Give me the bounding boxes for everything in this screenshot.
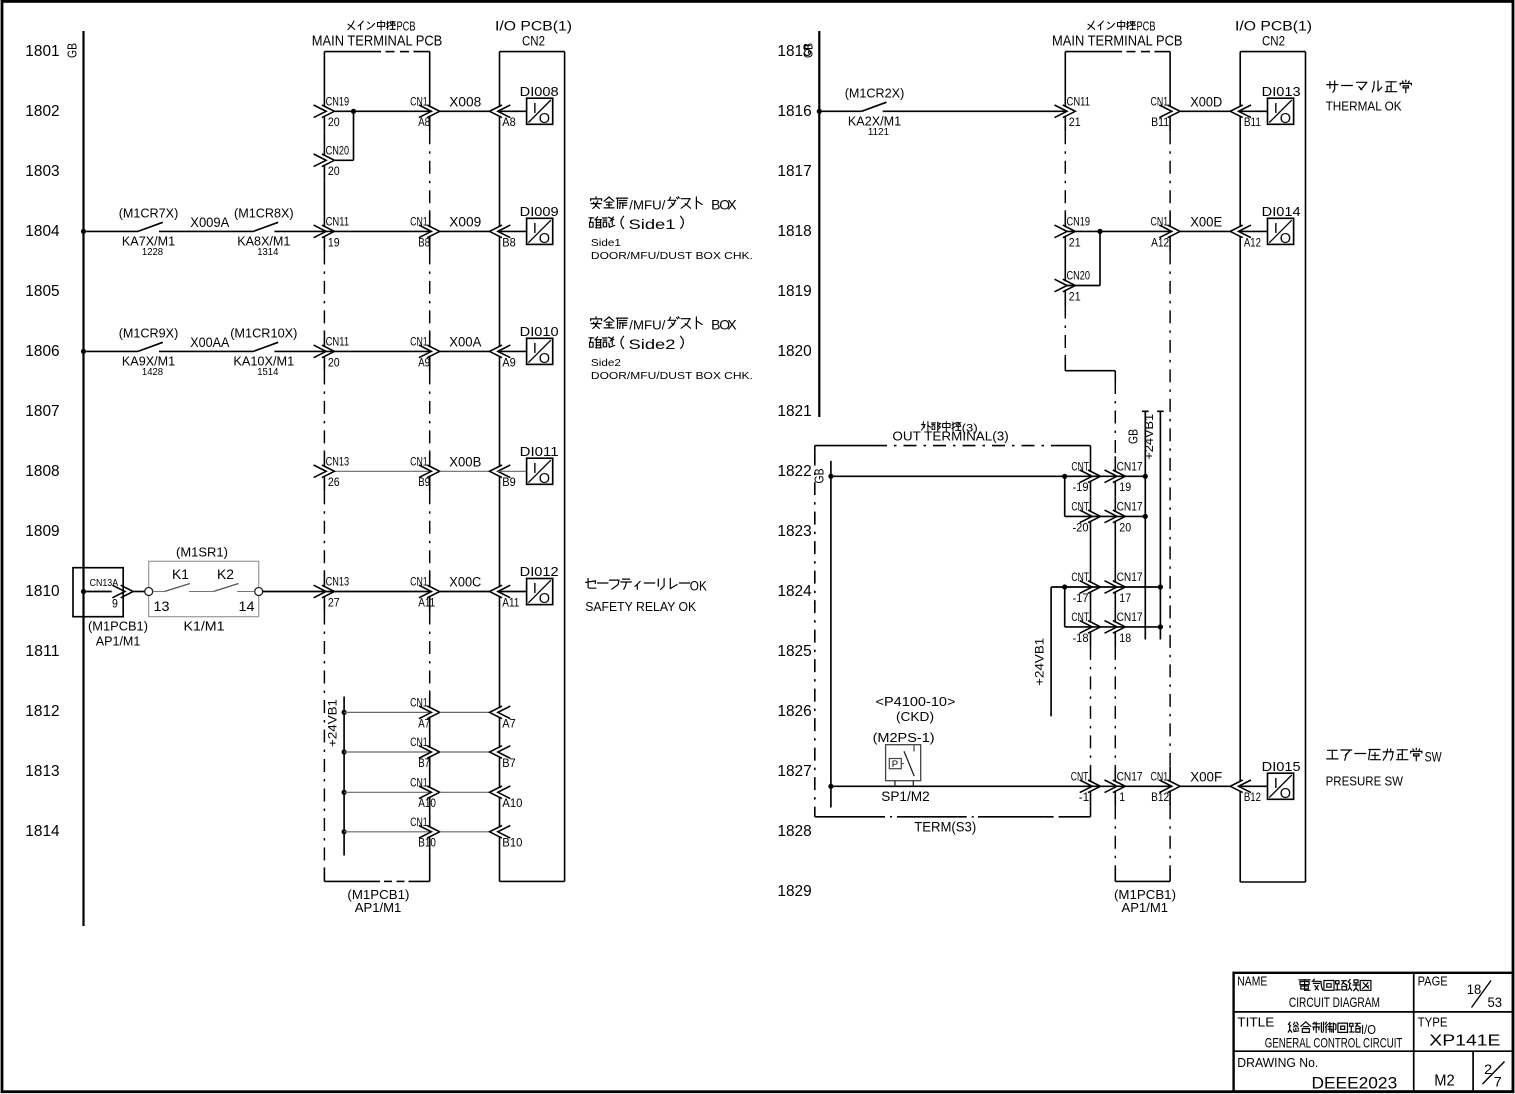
junction node GB riser row 1822: [1143, 474, 1148, 479]
wire to DI011: [498, 470, 527, 472]
connector pin CN20-20 (left main box): [314, 154, 327, 167]
svg-text:+24VB1: +24VB1: [328, 699, 340, 747]
safety relay terminal circle 14: [255, 588, 263, 596]
svg-text:DI013: DI013: [1262, 84, 1301, 99]
safety relay contact K1: [153, 591, 165, 593]
svg-text:AP1/M1: AP1/M1: [1122, 900, 1169, 915]
wire CN1-A10 to CN2-A10: [440, 791, 490, 793]
connector pin A10 (I/O PCB CN2): [490, 786, 503, 799]
svg-text:O: O: [539, 351, 550, 367]
svg-text:CNT: CNT: [1071, 610, 1089, 624]
svg-text:+24VB1: +24VB1: [1035, 638, 1047, 686]
connector pin CN11-20 (left main box): [314, 345, 327, 358]
svg-text:DEEE2023: DEEE2023: [1312, 1075, 1398, 1093]
safety relay unit M1SR1 K1/M1 - box: [149, 561, 259, 616]
svg-text:7: 7: [1494, 1075, 1502, 1090]
svg-text:20: 20: [1119, 520, 1131, 534]
svg-text:CN1: CN1: [410, 575, 428, 589]
svg-text:Side1: Side1: [629, 217, 676, 232]
wire to DI010: [498, 350, 527, 352]
bus +24VB1 (left): [343, 697, 345, 856]
svg-text:1811: 1811: [25, 643, 59, 660]
wire net X009: [440, 230, 490, 232]
connector pin CN1-A8 (left main box right edge): [419, 105, 432, 118]
svg-text:1826: 1826: [777, 703, 811, 720]
connector pin CN1-B11 (right main box right edge): [1159, 105, 1172, 118]
svg-text:B7: B7: [418, 756, 430, 770]
svg-text:O: O: [1280, 786, 1291, 802]
box OUT TERMINAL(3) - top edge: [815, 445, 874, 447]
connector pin B8 (I/O PCB CN2): [490, 225, 503, 238]
svg-text:1428: 1428: [142, 367, 164, 378]
svg-text:1822: 1822: [777, 463, 811, 480]
box I/O PCB(1) CN2 (right) - outline: [1240, 51, 1305, 53]
svg-text:A12: A12: [1244, 235, 1261, 249]
svg-text:CN20: CN20: [1067, 269, 1091, 283]
svg-text:O: O: [539, 231, 550, 247]
svg-text:SW: SW: [1425, 749, 1442, 764]
svg-text:DI012: DI012: [520, 564, 559, 579]
svg-text:(M1SR1): (M1SR1): [176, 544, 228, 559]
svg-text:K1: K1: [172, 567, 189, 582]
annotation 安全扉/MFU/ダスト BOX 確認(Side1): [591, 197, 628, 209]
bus GB (right): [818, 31, 820, 417]
junction node GB OUT row 1827: [828, 784, 833, 789]
svg-text:18: 18: [1467, 981, 1482, 997]
wire CN1-B10 to CN2-B10: [440, 831, 490, 833]
svg-text:A11: A11: [418, 595, 435, 609]
svg-text:OK: OK: [690, 579, 707, 594]
svg-text:CN11: CN11: [326, 215, 350, 229]
svg-text:1828: 1828: [777, 823, 811, 840]
svg-text:O: O: [539, 111, 550, 127]
svg-text:1821: 1821: [777, 403, 811, 420]
wire +24VB1 to CN1-A7: [344, 711, 431, 713]
box MAIN TERMINAL PCB (right) - left edge upper with step: [1064, 52, 1066, 107]
wire GB to pressure switch: [831, 785, 1172, 787]
svg-text:K1/M1: K1/M1: [184, 619, 225, 634]
svg-text:CNT: CNT: [1071, 460, 1089, 474]
svg-text:O: O: [1280, 111, 1291, 127]
svg-text:18: 18: [1119, 631, 1131, 645]
relay contact KA9X/M1 (M1CR9X): [138, 342, 163, 351]
connector pin CN20-21 (right main box): [1055, 279, 1068, 292]
svg-text:B12: B12: [1151, 790, 1169, 804]
box OUT TERMINAL(3) - right edge: [1090, 446, 1092, 472]
wire CNT-18 row: [1065, 626, 1161, 628]
connector pin B10 (I/O PCB CN2): [490, 826, 503, 839]
svg-text:1818: 1818: [777, 223, 811, 240]
svg-text:X00E: X00E: [1190, 215, 1222, 230]
svg-text:X: X: [727, 197, 736, 213]
svg-text:X00C: X00C: [449, 575, 481, 590]
svg-text:TYPE: TYPE: [1418, 1015, 1448, 1029]
svg-text:CN1: CN1: [410, 95, 428, 109]
connector pin CN1-B7 (left main box right edge): [419, 746, 432, 759]
svg-text:B9: B9: [418, 475, 430, 489]
connector pin CN17-1 (right main box): [1105, 780, 1118, 793]
svg-text:MAIN TERMINAL PCB: MAIN TERMINAL PCB: [1052, 33, 1183, 49]
svg-text:1802: 1802: [25, 103, 59, 120]
svg-text:1823: 1823: [777, 523, 811, 540]
junction node row 1818: [1097, 229, 1102, 234]
svg-text:B7: B7: [502, 756, 516, 770]
connector pin CN19-20 (left main box): [314, 105, 327, 118]
box I/O PCB(1) CN2 (left) - outline: [500, 51, 565, 53]
junction node +24VB1 riser row CN17-18: [1158, 624, 1163, 629]
svg-text:CN1: CN1: [410, 815, 428, 829]
svg-text:1228: 1228: [142, 247, 164, 258]
wire contact KA8X to CN11: [274, 230, 431, 232]
svg-text:(M1CR10X): (M1CR10X): [230, 326, 297, 341]
box MAIN TERMINAL PCB (left) - bottom edge with break: [324, 880, 380, 882]
connector pin CN1-A9 (left main box right edge): [419, 345, 432, 358]
title block column divider lower 2: [1472, 1051, 1474, 1091]
svg-text:PCB: PCB: [1137, 20, 1156, 34]
svg-text:B11: B11: [1151, 115, 1169, 129]
junction node GB bus row 1806: [81, 349, 86, 354]
connector CN13A pin 9 (M1PCB1 AP1/M1): [73, 568, 123, 617]
wire net X00AA: [159, 350, 253, 352]
svg-text:DRAWING No.: DRAWING No.: [1237, 1056, 1318, 1070]
wire +24VB1 to CN1-B7: [344, 751, 431, 753]
title block column divider lower 1: [1413, 1051, 1415, 1091]
I/O module DI009: [527, 218, 553, 244]
svg-text:14: 14: [239, 599, 256, 614]
svg-text:CNT: CNT: [1071, 500, 1089, 514]
junction node stub origin row 1822: [1062, 474, 1067, 479]
svg-text:I: I: [533, 460, 537, 477]
wire net X00A: [440, 350, 490, 352]
svg-text:1808: 1808: [25, 463, 59, 480]
svg-text:53: 53: [1488, 994, 1503, 1010]
I/O module DI013: [1268, 98, 1294, 124]
connector pin CNT-18 (OUT TERMINAL): [1080, 621, 1093, 634]
svg-text:1801: 1801: [25, 43, 59, 60]
svg-text:A12: A12: [1151, 235, 1169, 249]
svg-text:DI014: DI014: [1262, 204, 1301, 219]
svg-text:X009A: X009A: [190, 215, 229, 230]
svg-text:CNT: CNT: [1071, 770, 1089, 784]
connector pin B7 (I/O PCB CN2): [490, 746, 503, 759]
wire to DI009: [498, 230, 527, 232]
svg-text:Side2: Side2: [591, 357, 621, 369]
I/O module DI012: [527, 579, 553, 605]
svg-text:20: 20: [328, 164, 340, 178]
connector pin CNT-17 (OUT TERMINAL): [1080, 581, 1093, 594]
svg-text:17: 17: [1119, 591, 1131, 605]
svg-text:1819: 1819: [777, 283, 811, 300]
svg-text:1809: 1809: [25, 523, 59, 540]
box OUT TERMINAL(3) - left edge: [814, 446, 816, 453]
wire GB bus to contact KA9X: [84, 350, 139, 352]
svg-text:X009: X009: [449, 215, 481, 230]
connector pin CN17-17 (right main box): [1105, 581, 1118, 594]
box MAIN TERMINAL PCB (right) - top edge with break: [1065, 51, 1122, 53]
svg-text:CN1: CN1: [1151, 770, 1169, 784]
wire contact KA2X to CN11-21: [883, 110, 1067, 112]
svg-text:MAIN TERMINAL PCB: MAIN TERMINAL PCB: [312, 33, 443, 49]
wire net X009A: [159, 230, 253, 232]
svg-text:B8: B8: [502, 235, 516, 249]
connector pin A12 (right I/O PCB CN2): [1230, 225, 1243, 238]
svg-text:I/O PCB(1): I/O PCB(1): [1235, 19, 1312, 34]
annotation エアー圧力正常SW / PRESURE SW: [1327, 748, 1422, 760]
svg-text:CN1: CN1: [410, 735, 428, 749]
svg-text:CN1: CN1: [1151, 215, 1169, 229]
connector pin CN17-19 (right main box): [1105, 470, 1118, 483]
bus GB riser (right middle): [1142, 410, 1149, 412]
svg-text:DI010: DI010: [520, 324, 559, 339]
svg-text:CN20: CN20: [326, 144, 350, 158]
wire GB bus to contact KA2X: [819, 110, 861, 112]
svg-text:CIRCUIT DIAGRAM: CIRCUIT DIAGRAM: [1289, 994, 1380, 1010]
svg-text:20: 20: [328, 115, 340, 129]
svg-text:CN17: CN17: [1117, 500, 1143, 514]
svg-text:1813: 1813: [25, 763, 59, 780]
svg-text:19: 19: [328, 235, 340, 249]
junction node +24VB1 row B7: [342, 749, 347, 754]
svg-text:(M2PS-1): (M2PS-1): [873, 730, 935, 745]
connector pin CN17-18 (right main box): [1105, 621, 1118, 634]
svg-text:I: I: [533, 100, 537, 117]
annotation サーマル正常 / THERMAL OK: [1327, 80, 1412, 92]
title block row divider 1: [1234, 1011, 1513, 1013]
junction node row 1802: [351, 109, 356, 114]
connector pin CN17-20 (right main box): [1105, 510, 1118, 523]
svg-text:SAFETY RELAY OK: SAFETY RELAY OK: [585, 599, 696, 614]
svg-text:X00AA: X00AA: [190, 335, 229, 350]
svg-text:1121: 1121: [868, 127, 890, 138]
svg-text:THERMAL OK: THERMAL OK: [1326, 98, 1402, 113]
connector pin A11 (I/O PCB CN2): [490, 585, 503, 598]
wire to DI008: [498, 110, 527, 112]
wire net X00C: [440, 591, 490, 593]
wire GB to CN17-19 row 1822: [831, 475, 1145, 477]
svg-text:1806: 1806: [25, 343, 59, 360]
junction node +24VB1 riser row 1824: [1158, 584, 1163, 589]
svg-text:GB: GB: [812, 469, 826, 484]
svg-text:21: 21: [1069, 115, 1081, 129]
label メイン中継PCB (left): [348, 21, 395, 30]
annotation 安全扉/MFU/ダスト BOX 確認(Side2): [591, 317, 628, 329]
svg-text:DI011: DI011: [520, 444, 559, 459]
svg-text:1812: 1812: [25, 703, 59, 720]
connector pin B9 (I/O PCB CN2): [490, 465, 503, 478]
svg-text:1820: 1820: [777, 343, 812, 360]
wire stub to CN20-21: [1099, 231, 1101, 285]
connector pin B11 (right I/O PCB CN2): [1230, 105, 1243, 118]
box OUT TERMINAL(3) - bottom edge: [815, 816, 876, 818]
svg-text:CNT: CNT: [1071, 570, 1089, 584]
wire CN13A to safety relay box: [133, 591, 144, 593]
svg-text:-19: -19: [1073, 480, 1089, 494]
svg-text:I: I: [1274, 100, 1278, 117]
connector pin B12 (right I/O PCB CN2): [1230, 780, 1243, 793]
wire to DI012: [498, 591, 527, 593]
svg-text:DOOR/MFU/DUST BOX CHK.: DOOR/MFU/DUST BOX CHK.: [591, 370, 753, 382]
connector pin CNT-1 (OUT TERMINAL): [1080, 780, 1093, 793]
junction node GB bus row 1810: [81, 589, 86, 594]
wire net X00F: [1180, 785, 1230, 787]
svg-text:1514: 1514: [257, 367, 279, 378]
svg-text:I: I: [533, 340, 537, 357]
relay contact KA2X/M1 (M1CR2X): [862, 102, 887, 111]
connector pin A8 (I/O PCB CN2): [490, 105, 503, 118]
box MAIN TERMINAL PCB (right) - left edge lower: [1114, 371, 1116, 381]
svg-text:-1: -1: [1079, 790, 1090, 804]
svg-text:O: O: [1280, 231, 1291, 247]
svg-text:19: 19: [1119, 480, 1131, 494]
svg-text:CN13: CN13: [326, 455, 350, 469]
wire contact KA10X to CN11: [274, 350, 431, 352]
svg-text:CN19: CN19: [1067, 215, 1091, 229]
svg-text:1817: 1817: [777, 163, 811, 180]
svg-text:(M1CR7X): (M1CR7X): [119, 206, 179, 221]
svg-text:CN17: CN17: [1117, 610, 1143, 624]
svg-text:O: O: [539, 591, 550, 607]
wire net X008: [440, 110, 490, 112]
svg-text:1807: 1807: [25, 403, 59, 420]
svg-text:20: 20: [328, 355, 340, 369]
connector pin CN1-A10 (left main box right edge): [419, 786, 432, 799]
svg-text:21: 21: [1069, 289, 1081, 303]
relay contact KA7X/M1 (M1CR7X): [138, 222, 163, 231]
svg-text:CN17: CN17: [1117, 460, 1143, 474]
svg-text:CN1: CN1: [410, 696, 428, 710]
title block column divider upper: [1413, 973, 1415, 1051]
svg-text:K2: K2: [217, 567, 234, 582]
svg-text:I: I: [1274, 775, 1278, 792]
connector pin A7 (I/O PCB CN2): [490, 706, 503, 719]
svg-text:GB: GB: [801, 43, 815, 58]
svg-text:CN1: CN1: [410, 335, 428, 349]
box MAIN TERMINAL PCB (left) - left edge: [323, 52, 325, 107]
svg-text:1829: 1829: [777, 883, 811, 900]
svg-text:X00A: X00A: [449, 335, 481, 350]
pressure switch SP1/M2 (M2PS-1) <P4100-10> (CKD): [886, 745, 921, 781]
junction node GB bus row 1816: [817, 109, 822, 114]
box MAIN TERMINAL PCB (right) - right edge: [1169, 52, 1171, 107]
wire row 1802 CN19-20 to CN1-A8: [334, 110, 431, 112]
svg-text:-18: -18: [1073, 631, 1089, 645]
svg-text:CN11: CN11: [326, 335, 350, 349]
svg-text:GB: GB: [1127, 429, 1141, 444]
connector pin CN1-B8 (left main box right edge): [419, 225, 432, 238]
connector pin CN1-A12 (right main box right edge): [1159, 225, 1172, 238]
junction node GB OUT row 1822: [828, 474, 833, 479]
svg-text:+24VB1: +24VB1: [1144, 414, 1156, 460]
title block frame: [1234, 973, 1513, 1092]
svg-text:1804: 1804: [25, 223, 60, 240]
svg-text:27: 27: [328, 595, 340, 609]
connector pin CNT-19 (OUT TERMINAL): [1080, 470, 1093, 483]
svg-text:B12: B12: [1244, 790, 1261, 804]
svg-text:1803: 1803: [25, 163, 59, 180]
svg-text:PAGE: PAGE: [1418, 975, 1448, 989]
bus GB inside OUT TERMINAL(3): [830, 461, 832, 808]
svg-text:I: I: [1274, 220, 1278, 237]
annotation セーフティーリレーOK / SAFETY RELAY OK: [586, 579, 690, 590]
wire net X00B: [440, 470, 490, 472]
connector pin CN1-B10 (left main box right edge): [419, 826, 432, 839]
svg-text:X00F: X00F: [1190, 769, 1222, 784]
svg-text:CN11: CN11: [1067, 95, 1091, 109]
svg-text:P: P: [892, 759, 898, 770]
svg-text:A8: A8: [502, 115, 516, 129]
junction node stub origin row 1824: [1062, 584, 1067, 589]
connector pin CN13-27 (left main box): [314, 585, 327, 598]
svg-text:A11: A11: [502, 595, 519, 609]
junction node GB riser row CN17-20: [1143, 514, 1148, 519]
svg-text:21: 21: [1069, 235, 1081, 249]
svg-text:CN17: CN17: [1117, 570, 1143, 584]
svg-text:<P4100-10>: <P4100-10>: [876, 694, 956, 709]
svg-text:M2: M2: [1434, 1073, 1455, 1090]
wire +24VB1 to CN1-A10: [344, 791, 431, 793]
svg-text:1810: 1810: [25, 583, 60, 600]
svg-text:1314: 1314: [257, 247, 279, 258]
svg-text:CN1: CN1: [410, 776, 428, 790]
svg-text:TITLE: TITLE: [1237, 1015, 1274, 1029]
svg-text:X: X: [727, 317, 736, 333]
svg-text:9: 9: [112, 596, 118, 610]
wire +24VB1 drop: [1050, 587, 1052, 716]
wire +24VB1 to CN1-B10: [344, 831, 431, 833]
connector pin CN19-21 (right main box): [1055, 225, 1068, 238]
svg-text:CN1: CN1: [410, 215, 428, 229]
wire CN1-A7 to CN2-A7: [440, 711, 490, 713]
svg-text:CN1: CN1: [1151, 95, 1169, 109]
connector pin CN13-26 (left main box): [314, 465, 327, 478]
svg-text:AP1/M1: AP1/M1: [355, 900, 402, 915]
svg-text:B8: B8: [418, 235, 430, 249]
svg-text:SP1/M2: SP1/M2: [881, 789, 930, 804]
svg-text:GB: GB: [66, 43, 80, 58]
svg-text:1805: 1805: [25, 283, 59, 300]
svg-text:XP141E: XP141E: [1429, 1033, 1500, 1050]
bus +24VB1 riser (right middle): [1157, 410, 1164, 412]
svg-text:PRESURE SW: PRESURE SW: [1326, 773, 1404, 788]
svg-text:NAME: NAME: [1237, 975, 1267, 989]
svg-text:CN1: CN1: [410, 455, 428, 469]
svg-text:B9: B9: [502, 475, 516, 489]
svg-text:1827: 1827: [777, 763, 811, 780]
connector pin CN1-A11 (left main box right edge): [419, 585, 432, 598]
relay contact KA8X/M1 (M1CR8X): [253, 222, 278, 231]
junction node +24VB1 row A10: [342, 790, 347, 795]
wire to DI015: [1239, 785, 1268, 787]
svg-text:(M1CR2X): (M1CR2X): [845, 86, 905, 101]
bus GB (left): [82, 31, 84, 926]
svg-text:(M1PCB1): (M1PCB1): [88, 619, 148, 634]
connector pin CNT-20 (OUT TERMINAL): [1080, 510, 1093, 523]
connector pin CN11-19 (left main box): [314, 225, 327, 238]
wire row 1808 CN13-26 to CN1-B9: [334, 470, 431, 472]
svg-text:1: 1: [1119, 790, 1125, 804]
svg-text:DI009: DI009: [520, 204, 559, 219]
svg-text:1825: 1825: [777, 643, 811, 660]
svg-text:CN2: CN2: [522, 33, 545, 48]
connector pin CN1-B9 (left main box right edge): [419, 465, 432, 478]
svg-text:A9: A9: [418, 355, 430, 369]
wire to DI013: [1239, 110, 1268, 112]
svg-text:(M1CR9X): (M1CR9X): [119, 326, 179, 341]
svg-text:1814: 1814: [25, 823, 60, 840]
svg-text:X008: X008: [449, 94, 481, 109]
svg-text:Side2: Side2: [629, 337, 676, 352]
relay contact KA10X/M1 (M1CR10X): [253, 342, 278, 351]
